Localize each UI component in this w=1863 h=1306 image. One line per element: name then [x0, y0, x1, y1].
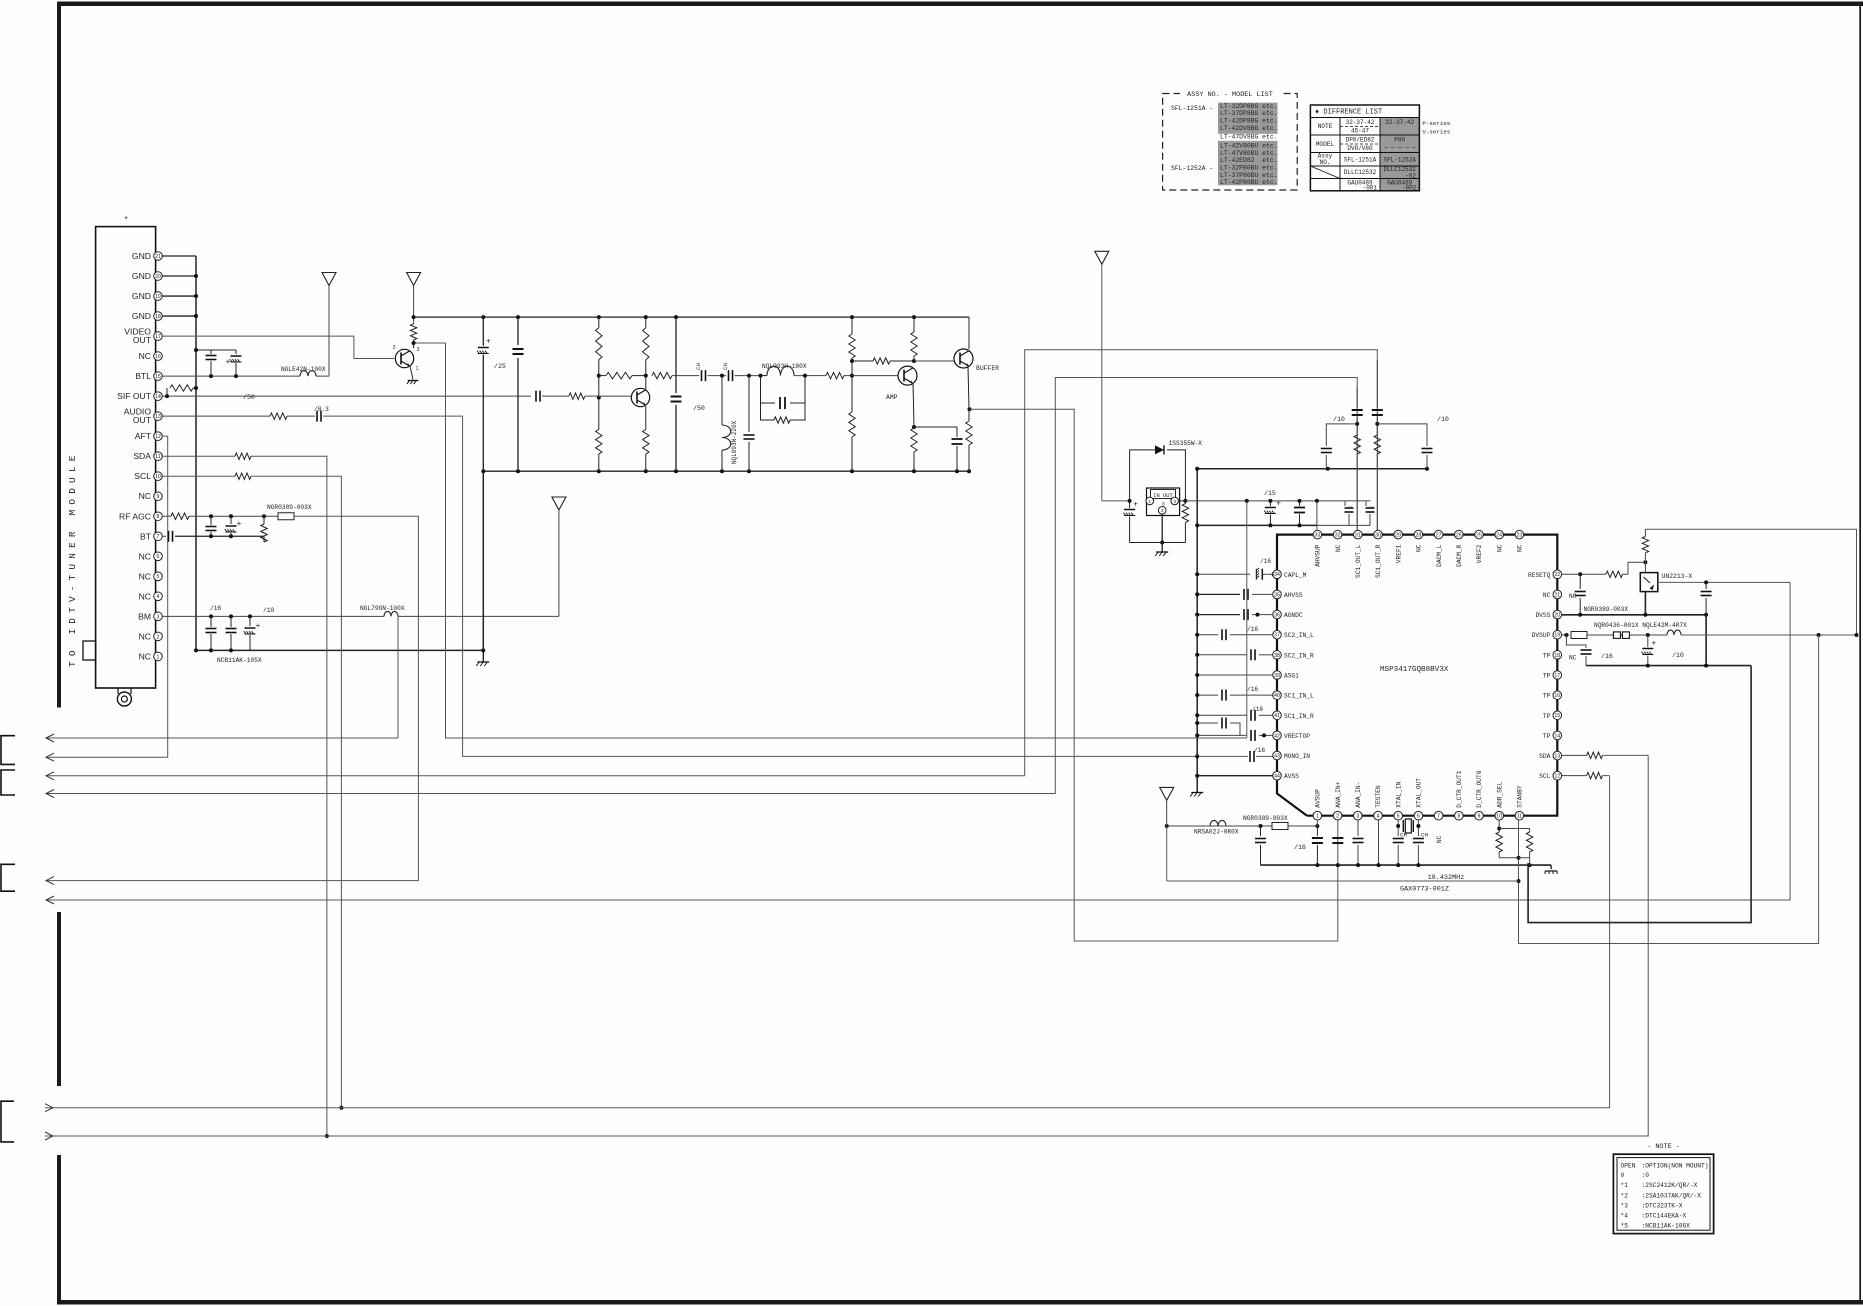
- resistor Q2 upper bias: [598, 317, 600, 328]
- capacitor SC1_OUT_L series: [1356, 387, 1358, 408]
- svg-text:6: 6: [1417, 814, 1420, 820]
- wire GND pin20 to bus: [162, 275, 196, 277]
- wire collector-net long line to IC area: [446, 343, 1247, 738]
- IC U1 pin 43 MONO_IN: [1273, 751, 1282, 760]
- resistor SDA (IC): [1587, 752, 1603, 758]
- table ASSY NO. - MODEL LIST (dashed box): [1163, 94, 1298, 191]
- svg-text:LT-47V80BU etc.: LT-47V80BU etc.: [1220, 150, 1278, 157]
- connector J1 mounting hole: [117, 692, 131, 706]
- IC U1 pin 32 NC: [1333, 530, 1342, 539]
- svg-text:NO.: NO.: [1320, 159, 1331, 166]
- resistor RF AGC shunt: [263, 516, 265, 524]
- crystal X1 CH: [1402, 820, 1404, 832]
- svg-text:35: 35: [1274, 592, 1280, 598]
- inductor DVSUP: [1667, 630, 1681, 635]
- border frame top: [57, 2, 1863, 7]
- svg-text:MSP3417GQB8BV3X: MSP3417GQB8BV3X: [1380, 666, 1449, 674]
- svg-text:DVSS: DVSS: [1535, 612, 1550, 619]
- svg-text:2: 2: [393, 345, 396, 351]
- svg-text:45-47: 45-47: [1351, 128, 1369, 135]
- svg-text:BT: BT: [140, 531, 152, 541]
- resistor UN2213 pull-up: [1644, 553, 1646, 562]
- svg-text:SCL: SCL: [134, 471, 151, 481]
- arrow SCL (from control page): [45, 1104, 53, 1112]
- svg-text:SFL-1252A: SFL-1252A: [1383, 157, 1416, 164]
- svg-text:4: 4: [1377, 814, 1380, 820]
- svg-text:NC: NC: [139, 551, 151, 561]
- svg-text:OUT: OUT: [133, 415, 152, 425]
- svg-text:1SS355W-X: 1SS355W-X: [1169, 440, 1203, 447]
- ground symbol Q1: [408, 380, 419, 382]
- wire SDA to bottom bus: [251, 456, 327, 1136]
- svg-text:SC1_IN_R: SC1_IN_R: [1284, 713, 1314, 720]
- wire ASG1 row: [1197, 674, 1273, 676]
- svg-text:SDA: SDA: [1539, 753, 1550, 760]
- IC U1 pin 10 ADR_SEL: [1495, 811, 1504, 820]
- svg-text:21: 21: [1554, 592, 1560, 598]
- resistor SCL: [235, 473, 251, 479]
- svg-text::DTC144EKA-X: :DTC144EKA-X: [1642, 1212, 1687, 1219]
- svg-text:32-37-42: 32-37-42: [1346, 119, 1375, 126]
- arrow AFT (to tuner page): [46, 753, 54, 761]
- svg-text:9: 9: [157, 494, 160, 500]
- wire digital ground rail: [1586, 665, 1751, 667]
- svg-text:2: 2: [157, 634, 160, 640]
- svg-text:OUT: OUT: [133, 335, 152, 345]
- wire SC2_IN_R row: [1197, 654, 1247, 656]
- svg-text:NC: NC: [1416, 544, 1423, 552]
- wire CH2 to tank: [735, 375, 761, 377]
- IC U1 pin 14 TP: [1553, 731, 1562, 740]
- svg-text:13: 13: [155, 414, 161, 420]
- wire analog ground rail (bottom): [1261, 864, 1552, 866]
- wire DVSUP branch to STANBY pull: [1519, 635, 1819, 944]
- svg-text:36: 36: [1274, 612, 1280, 618]
- wire cap return rail extension: [1317, 524, 1370, 526]
- svg-text::2SA1037AK/QR/-X: :2SA1037AK/QR/-X: [1642, 1193, 1702, 1200]
- IC U1 pin 27 DACM_L: [1434, 530, 1443, 539]
- capacitor RF AGC 2 (electrolytic): [230, 516, 232, 524]
- svg-text:SCL: SCL: [1539, 773, 1550, 780]
- wire AHVSS row: [1197, 593, 1240, 595]
- capacitor SC1_OUT_R /10: [1377, 424, 1427, 446]
- IC U1 pin 29 VREF1: [1394, 530, 1403, 539]
- wire SIF into resistor: [542, 395, 569, 397]
- svg-text:AHVSS: AHVSS: [1284, 592, 1303, 599]
- wire AVSUP pin riser: [1316, 820, 1318, 826]
- capacitor BM 1: [210, 616, 212, 627]
- capacitor TP18 /16: [1566, 635, 1586, 648]
- svg-text:ASSY NO. - MODEL LIST: ASSY NO. - MODEL LIST: [1187, 91, 1273, 99]
- IC U1 pin 42 VREFTOP: [1273, 731, 1282, 740]
- wire SIF to Q2 base: [585, 395, 632, 397]
- svg-text:42: 42: [1274, 733, 1280, 739]
- svg-text:5: 5: [1397, 814, 1400, 820]
- resistor RESETQ series: [1606, 571, 1623, 577]
- wire GND pin18 to bus: [162, 315, 196, 317]
- svg-text:20: 20: [1554, 612, 1560, 618]
- svg-text:DLLC12532: DLLC12532: [1344, 169, 1377, 176]
- IC U1 pin 20 DVSS: [1553, 610, 1562, 619]
- wire MONO_IN bus junction: [1195, 754, 1199, 758]
- svg-text:NC: NC: [139, 631, 151, 641]
- wire AFT to left tab arrow: [46, 436, 168, 757]
- svg-text:/16: /16: [1252, 706, 1263, 713]
- svg-text:/15: /15: [1264, 490, 1276, 497]
- svg-text:D_CTR_OUT1: D_CTR_OUT1: [1456, 770, 1463, 807]
- resistor SIF series: [569, 393, 585, 399]
- capacitor SC1_OUT_L /10: [1326, 424, 1357, 446]
- svg-text:SDA: SDA: [133, 451, 151, 461]
- wire Q2 collector: [645, 317, 647, 328]
- antenna tap triangle (BTL): [322, 273, 336, 286]
- IC U1 pin 41 SC1_IN_R: [1273, 711, 1282, 720]
- svg-text:/16: /16: [1294, 844, 1306, 851]
- svg-text:DV8/V80: DV8/V80: [1347, 145, 1373, 152]
- svg-text:9: 9: [1478, 814, 1481, 820]
- svg-text:ASG1: ASG1: [1284, 673, 1299, 680]
- svg-text:*5: *5: [1621, 1222, 1629, 1229]
- IC U1 pin 6 XTAL_OUT: [1414, 811, 1423, 820]
- svg-text:DACM_L: DACM_L: [1436, 544, 1443, 567]
- svg-text:29: 29: [1395, 533, 1401, 539]
- wire GND pin19 to bus: [162, 295, 196, 297]
- svg-text:NC: NC: [1569, 655, 1577, 662]
- svg-text:14: 14: [155, 394, 161, 400]
- svg-text:3: 3: [417, 347, 420, 353]
- page-edge tab (RF AGC): [1, 864, 15, 891]
- wire CAPL_M row: [1197, 573, 1250, 575]
- svg-text:22: 22: [1554, 572, 1560, 578]
- capacitor VREFTOP 2: [1197, 722, 1218, 724]
- wire Q1 emitter to ground: [410, 366, 413, 380]
- capacitor DVSUP /10 (electrolytic): [1647, 635, 1649, 647]
- svg-text:LT-42P80BU etc.: LT-42P80BU etc.: [1220, 179, 1278, 186]
- svg-text:37: 37: [1274, 633, 1280, 639]
- svg-text:SFL-1251A -: SFL-1251A -: [1171, 105, 1213, 112]
- wire ground bottom rail: [483, 470, 969, 472]
- capacitor CH series 1: [701, 370, 703, 381]
- resistor NQR0436-001X (box): [1571, 632, 1587, 639]
- IC U1 pin 24 NC: [1495, 530, 1504, 539]
- IC U1 pin 8 D_CTR_OUT1: [1455, 811, 1464, 820]
- resistor SIF to bus: [166, 388, 168, 396]
- svg-text:20: 20: [155, 274, 161, 280]
- svg-text:TO IDTV-TUNER MODULE: TO IDTV-TUNER MODULE: [67, 450, 78, 667]
- IC U1 pin 17 TP: [1553, 671, 1562, 680]
- svg-text:/16: /16: [210, 605, 221, 612]
- resistor NGR0389-003X (box): [278, 513, 294, 520]
- wire SCL to bottom bus: [251, 476, 341, 1107]
- svg-text:LT-42DV8BG etc.: LT-42DV8BG etc.: [1220, 125, 1278, 132]
- svg-text:/50: /50: [243, 394, 255, 401]
- svg-text:GND: GND: [132, 251, 151, 261]
- IC U1 pin 39 ASG1: [1273, 671, 1282, 680]
- resistor Q2 out series: [652, 372, 672, 378]
- wire STANBY riser: [1518, 820, 1520, 944]
- wire triangle to Q1 collector resistor: [413, 286, 415, 324]
- svg-text:24: 24: [1496, 533, 1502, 539]
- wire AGNDC row: [1197, 614, 1240, 616]
- svg-text:NC: NC: [139, 651, 151, 661]
- antenna tap triangle (AVSUP): [1160, 787, 1174, 800]
- svg-text:16: 16: [155, 354, 161, 360]
- wire SCL from connector: [162, 475, 235, 477]
- svg-text:26: 26: [1456, 533, 1462, 539]
- IC U1 pin 26 DACM_R: [1455, 530, 1464, 539]
- IC U1 pin 13 SDA: [1553, 751, 1562, 760]
- svg-text:27: 27: [1436, 533, 1442, 539]
- IC U1 pin 28 NC: [1414, 530, 1423, 539]
- capacitor BTL 1: [210, 350, 212, 354]
- wire IC analog ground bus: [1196, 469, 1198, 792]
- capacitor CAPL_M /16 (electrolytic): [1256, 568, 1276, 580]
- svg-text:AGNDC: AGNDC: [1284, 612, 1303, 619]
- IC U1 pin 1 AVSUP: [1313, 811, 1322, 820]
- svg-text:28: 28: [1416, 533, 1422, 539]
- IC U1 pin 34 CAPL_M: [1273, 570, 1282, 579]
- svg-text:10: 10: [155, 474, 161, 480]
- inductor NGLE42N-100X: [300, 371, 316, 377]
- svg-text:SIF OUT: SIF OUT: [117, 391, 152, 401]
- wire supply branch down to collector-net line: [1246, 501, 1248, 738]
- svg-text:-001: -001: [1363, 185, 1378, 192]
- svg-text:VREF2: VREF2: [1476, 544, 1483, 563]
- svg-text:30: 30: [1375, 533, 1381, 539]
- capacitor BT series: [168, 531, 170, 542]
- svg-text:+: +: [1276, 499, 1281, 508]
- svg-text:GND: GND: [132, 271, 151, 281]
- svg-text:GND: GND: [132, 291, 151, 301]
- wire SC1_OUT_L riser: [1356, 387, 1358, 530]
- svg-text:AMP: AMP: [886, 394, 898, 401]
- IC U1 pin 9 D_CTR_OUT0: [1475, 811, 1484, 820]
- svg-text:/10: /10: [1672, 652, 1684, 659]
- IC U1 pin 23 NC: [1515, 530, 1524, 539]
- svg-text:+: +: [226, 357, 231, 366]
- wire 18.432MHz net: [1167, 880, 1519, 882]
- wire AMP base: [852, 375, 899, 377]
- svg-text:23: 23: [1517, 533, 1523, 539]
- svg-text:GAX0773-001Z: GAX0773-001Z: [1400, 886, 1449, 894]
- inductor NGL79GN-100X: [384, 611, 398, 616]
- wire DVSS row: [1562, 614, 1707, 616]
- capacitor BM 3 (electrolytic): [249, 616, 251, 626]
- arrow BM branch (to tuner page): [46, 734, 54, 742]
- svg-text:*4: *4: [1621, 1212, 1629, 1219]
- svg-text:7: 7: [157, 534, 160, 540]
- svg-text:12: 12: [155, 434, 161, 440]
- wire RESETQ jog up to UN2213: [1623, 562, 1646, 574]
- wire DVSUP to right edge: [1681, 634, 1857, 636]
- svg-text:*: *: [124, 215, 127, 224]
- svg-text:STANBY: STANBY: [1517, 785, 1524, 808]
- wire UN2213 output: [1658, 581, 1790, 583]
- resistor SDA: [235, 453, 251, 459]
- svg-text:1: 1: [157, 654, 160, 660]
- svg-text:1: 1: [1149, 499, 1152, 504]
- IC U1 pin 22 RESETQ: [1553, 570, 1562, 579]
- capacitor SC1_IN_L /16: [1221, 690, 1223, 701]
- wire node to CH2: [708, 375, 727, 377]
- svg-text:/16: /16: [1260, 558, 1271, 565]
- svg-text:SC2_IN_R: SC2_IN_R: [1284, 652, 1314, 659]
- svg-text:TP: TP: [1543, 713, 1551, 720]
- resistor SC1_OUT_R shunt: [1376, 417, 1378, 435]
- wire AUDIO to MONO_IN (long): [323, 416, 1248, 756]
- transistor Q5 UN2213-X (digital): [1640, 573, 1658, 592]
- svg-text:NCB11AK-105X: NCB11AK-105X: [217, 657, 262, 664]
- wire regulator output supply line: [1185, 500, 1370, 502]
- svg-text:NGR0389-003X: NGR0389-003X: [1243, 815, 1288, 822]
- svg-text:/10: /10: [263, 607, 274, 614]
- svg-text:XTAL_OUT: XTAL_OUT: [1416, 778, 1423, 808]
- wire SDA from connector: [162, 455, 235, 457]
- IC U1 pin 5 XTAL_IN: [1394, 811, 1403, 820]
- svg-text:7: 7: [1437, 814, 1440, 820]
- border frame left (segmented): [57, 2, 61, 708]
- svg-text:NC: NC: [1569, 593, 1577, 600]
- svg-text:33: 33: [1315, 533, 1321, 539]
- wire supply top rail: [414, 316, 969, 318]
- svg-text:NC: NC: [1436, 835, 1443, 843]
- svg-text::NCB11AK-106X: :NCB11AK-106X: [1642, 1222, 1691, 1229]
- svg-text:10: 10: [1496, 814, 1502, 820]
- svg-text:+: +: [256, 621, 261, 630]
- border frame right: [1859, 2, 1861, 1305]
- svg-text:15: 15: [1554, 713, 1560, 719]
- capacitor AHVSS: [1243, 589, 1245, 600]
- resistor ADR_SEL: [1496, 832, 1502, 852]
- svg-text:/16: /16: [1254, 747, 1265, 754]
- resistor AMP collector feedback: [873, 358, 890, 364]
- IC U1 pin 7 NC: [1434, 811, 1443, 820]
- ground symbol IC bus: [1191, 792, 1203, 794]
- svg-text:IN OUT: IN OUT: [1153, 493, 1173, 499]
- svg-text:NC: NC: [1335, 544, 1342, 552]
- capacitor supply bypass x=518: [517, 317, 519, 345]
- wire buffer emitter node: [968, 366, 969, 409]
- capacitor BTL 2 (electrolytic): [235, 350, 237, 354]
- connector J1 mounting tab: [83, 641, 96, 660]
- svg-text:38: 38: [1274, 653, 1280, 659]
- wire SC2_IN_L row: [1197, 634, 1218, 636]
- capacitor AUDIO series /8.3: [316, 411, 318, 422]
- svg-text:NC: NC: [139, 591, 151, 601]
- svg-text:♦ DIFFRENCE LIST: ♦ DIFFRENCE LIST: [1315, 109, 1382, 117]
- resistor NGR0389-003X (AVSUP box): [1272, 823, 1288, 830]
- arrow RF AGC (to tuner page): [46, 877, 54, 885]
- diode D1 1SS355W-X frame: [1130, 450, 1155, 501]
- ground symbol bottom rail: [1550, 865, 1552, 869]
- antenna tap triangle (BM): [552, 497, 566, 510]
- svg-text:C: C: [1348, 506, 1354, 509]
- resistor after tank: [826, 372, 844, 378]
- svg-text:NGL79GN-100X: NGL79GN-100X: [360, 605, 405, 612]
- wire BM branch down to left arrow line: [46, 616, 398, 738]
- wire buffer output loop to ANA_IN+ (long): [970, 409, 1338, 941]
- svg-text:LT-32DP8BG etc.: LT-32DP8BG etc.: [1220, 103, 1278, 110]
- svg-text:LT-37DP8BG etc.: LT-37DP8BG etc.: [1220, 110, 1278, 117]
- svg-text:LT-42DP8BG etc.: LT-42DP8BG etc.: [1220, 118, 1278, 125]
- svg-text:13: 13: [1554, 753, 1560, 759]
- wire DVSUP mid: [1587, 634, 1667, 636]
- svg-text:17: 17: [1554, 673, 1560, 679]
- svg-text:P-series: P-series: [1422, 120, 1450, 127]
- IC U1 pin 36 AGNDC: [1273, 610, 1282, 619]
- wire buffer collector from rail: [968, 317, 970, 349]
- inductor NRSA02J-0R0X: [1210, 820, 1226, 826]
- capacitor SC2_IN_L /16: [1221, 629, 1223, 640]
- capacitor C (pin30 bypass): [1365, 501, 1367, 506]
- resistor tank (parallel): [761, 403, 775, 420]
- capacitor AMP emitter bypass: [914, 426, 957, 428]
- svg-text:GND: GND: [132, 311, 151, 321]
- capacitor AVSUP input: [1260, 826, 1262, 836]
- inductor NQL093N-220X (shunt): [721, 376, 723, 425]
- svg-text:LT-47DV8BG etc.: LT-47DV8BG etc.: [1220, 134, 1278, 141]
- svg-text:TP: TP: [1543, 693, 1551, 700]
- svg-text:18: 18: [1554, 653, 1560, 659]
- resistor SCL (IC): [1587, 772, 1603, 778]
- IC U1 pin 30 SC1_OUT_R: [1374, 530, 1383, 539]
- svg-text:11: 11: [1517, 814, 1522, 820]
- svg-text:39: 39: [1274, 673, 1280, 679]
- svg-text:XTAL_IN: XTAL_IN: [1395, 781, 1402, 807]
- capacitor SC2_IN_R: [1250, 649, 1252, 660]
- svg-text:/10: /10: [1437, 416, 1449, 423]
- svg-text:3: 3: [1356, 814, 1359, 820]
- svg-text:15: 15: [155, 374, 161, 380]
- svg-text:TP: TP: [1543, 673, 1551, 680]
- svg-text:V-series: V-series: [1422, 129, 1450, 136]
- IC U1 pin 35 AHVSS: [1273, 590, 1282, 599]
- capacitor ANA_IN+ bypass: [1332, 837, 1343, 839]
- wire AMP emitter: [913, 383, 914, 428]
- svg-text:- NOTE -: - NOTE -: [1647, 1143, 1680, 1151]
- IC U1 pin 38 SC2_IN_R: [1273, 651, 1282, 660]
- capacitor CH series 2: [728, 370, 730, 381]
- svg-text:+: +: [1133, 500, 1138, 509]
- svg-text:/16: /16: [1247, 686, 1258, 693]
- wire SDA row (IC): [1562, 754, 1587, 756]
- regulator IC2 body (IN OUT): [1147, 488, 1180, 516]
- svg-text:31: 31: [1355, 533, 1361, 539]
- svg-text:MODEL: MODEL: [1316, 141, 1335, 148]
- svg-text:SFL-1252A -: SFL-1252A -: [1171, 165, 1213, 172]
- resistor SC1_OUT_L shunt: [1356, 417, 1358, 435]
- svg-text:14: 14: [1554, 733, 1560, 739]
- svg-text:16: 16: [1554, 693, 1560, 699]
- svg-text:NGR0389-003X: NGR0389-003X: [267, 504, 312, 511]
- svg-text:VREFTOP: VREFTOP: [1284, 733, 1310, 740]
- wire SC1_OUT_R riser: [1376, 360, 1378, 530]
- svg-text:44: 44: [1274, 774, 1280, 780]
- svg-text:+: +: [237, 519, 242, 528]
- wire SC1_OUT_R net (long, arrow3): [46, 350, 1377, 776]
- capacitor SIF coupling: [535, 391, 537, 402]
- resistor AMP emitter: [911, 428, 917, 452]
- svg-text::DTC323TK-X: :DTC323TK-X: [1642, 1203, 1683, 1210]
- arrow RESET net (to tuner page): [46, 896, 54, 904]
- capacitor MONO_IN series /16: [1249, 751, 1251, 762]
- wire XTAL_IN riser: [1397, 820, 1399, 836]
- svg-text:1: 1: [1316, 814, 1319, 820]
- wire AUDIO OUT row: [162, 415, 270, 417]
- svg-text:NQL093H-180X: NQL093H-180X: [762, 363, 807, 370]
- IC U1 pin 44 AVSS: [1273, 771, 1282, 780]
- wire VREFTOP row: [1197, 734, 1247, 736]
